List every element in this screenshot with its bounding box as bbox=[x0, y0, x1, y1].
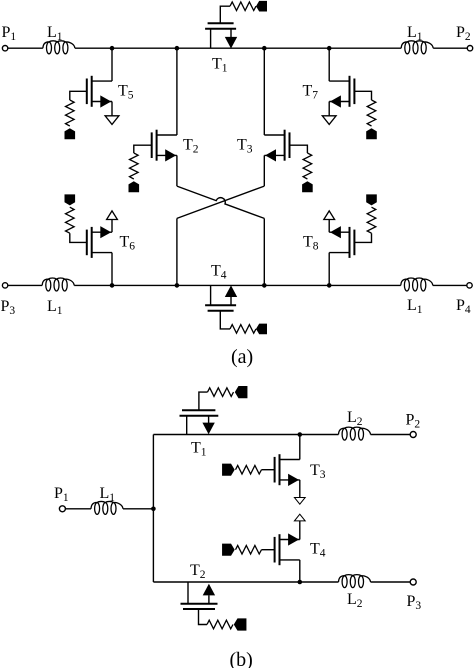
ground T7 bbox=[322, 116, 336, 125]
wire T4 gate lead bbox=[220, 311, 230, 329]
svg-text:T4: T4 bbox=[211, 263, 227, 282]
wire T2 source down bbox=[176, 155, 178, 186]
wire T7 gate lead bbox=[354, 91, 371, 100]
wire T2 gate lead part-b bbox=[199, 609, 208, 625]
svg-text:T1: T1 bbox=[212, 56, 228, 75]
wire T3 source down bbox=[263, 155, 265, 186]
bias terminal T1 part-b bbox=[235, 386, 248, 398]
transistor T1 bbox=[205, 23, 237, 48]
resistor T8 gate bias bbox=[367, 207, 376, 233]
resistor T2 gate bias bbox=[130, 153, 139, 179]
inductor L1 top-left bbox=[43, 41, 75, 54]
svg-text:(b): (b) bbox=[230, 649, 253, 668]
bias terminal T2 part-b bbox=[234, 618, 247, 630]
svg-text:P3: P3 bbox=[407, 593, 422, 612]
up terminal T6 bbox=[107, 211, 118, 220]
up terminal T4 part-b bbox=[294, 514, 305, 521]
transistor T1 part-b bbox=[180, 410, 219, 434]
inductor L1 bottom-left bbox=[42, 278, 74, 291]
port P3 bbox=[2, 283, 7, 288]
transistor T7 bbox=[329, 76, 354, 108]
svg-text:P1: P1 bbox=[2, 24, 17, 43]
wire cross-couple T3 source to left node bbox=[177, 186, 264, 218]
wire P1 to L1 bbox=[8, 47, 43, 49]
wire T4 source up part-b bbox=[299, 521, 301, 540]
wire left trunk part-b bbox=[152, 435, 154, 583]
junction bottom rail at T6 drain bbox=[110, 283, 115, 288]
svg-text:P2: P2 bbox=[456, 24, 471, 43]
bias terminal T3 part-b bbox=[222, 464, 235, 476]
wire T4 drain to bottom rail part-b bbox=[299, 560, 301, 582]
wire L1 to P2 bbox=[433, 47, 467, 49]
bias terminal T5 bbox=[65, 128, 76, 139]
bias terminal T4 part-b bbox=[222, 544, 235, 556]
wire T3 drain to top rail part-b bbox=[299, 435, 301, 460]
svg-text:T8: T8 bbox=[303, 234, 319, 253]
wire T3 gate lead bbox=[290, 145, 308, 153]
wire T2 drain to top rail bbox=[176, 48, 178, 135]
wire bottom rail bbox=[74, 284, 401, 286]
svg-text:L1: L1 bbox=[407, 24, 423, 43]
wire L2 to P2 part-b bbox=[371, 434, 411, 436]
transistor T6 bbox=[87, 226, 112, 258]
svg-text:L1: L1 bbox=[407, 297, 423, 316]
wire L2 to P3 part-b bbox=[371, 581, 411, 583]
bias terminal T7 bbox=[366, 128, 377, 139]
wire T5 gate lead bbox=[70, 91, 87, 100]
ground T3 part-b bbox=[294, 498, 305, 505]
svg-text:L1: L1 bbox=[100, 485, 116, 504]
resistor T1 gate bias bbox=[230, 2, 256, 11]
transistor T2 part-b bbox=[181, 582, 218, 609]
wire T6 source up bbox=[111, 220, 113, 233]
svg-text:(a): (a) bbox=[231, 346, 253, 368]
resistor T1 gate bias part-b bbox=[208, 388, 234, 397]
port P3 part-b bbox=[410, 579, 416, 585]
junction bottom rail part-b bbox=[298, 580, 303, 585]
wire bottom rail part-b bbox=[153, 581, 338, 583]
port P4 bbox=[467, 283, 472, 288]
svg-text:P2: P2 bbox=[406, 412, 421, 431]
inductor L2 top part-b bbox=[339, 427, 371, 440]
transistor T4 bbox=[205, 285, 237, 310]
wire T5 drain to top rail bbox=[111, 48, 113, 81]
wire T3 gate lead part-b bbox=[262, 469, 275, 471]
wire T1 gate lead part-b bbox=[199, 392, 208, 410]
wire left cross node down to bottom rail bbox=[176, 218, 178, 285]
wire T5 source down bbox=[111, 102, 113, 116]
wire P3 to L1 bbox=[8, 284, 42, 286]
wire T3 source down part-b bbox=[299, 480, 301, 498]
up terminal T8 bbox=[324, 211, 335, 220]
transistor T3 part-b bbox=[275, 454, 300, 486]
wire top rail bbox=[75, 47, 401, 49]
svg-text:T5: T5 bbox=[118, 83, 134, 102]
bias terminal T4 bbox=[256, 324, 267, 335]
junction top rail at T2 drain bbox=[175, 46, 180, 51]
inductor L1 part-b bbox=[91, 501, 123, 514]
svg-text:T6: T6 bbox=[120, 234, 136, 253]
port P2 bbox=[467, 46, 472, 51]
svg-text:T2: T2 bbox=[190, 562, 206, 581]
svg-text:T1: T1 bbox=[191, 440, 207, 459]
wire T6 gate lead bbox=[70, 233, 87, 242]
resistor T2 gate bias part-b bbox=[207, 620, 233, 629]
wire right cross node down to bottom rail bbox=[263, 218, 265, 285]
wire L1 to trunk part-b bbox=[123, 508, 153, 510]
svg-text:L2: L2 bbox=[347, 591, 363, 610]
wire T7 drain to top rail bbox=[328, 48, 330, 81]
junction top rail at T3 drain bbox=[262, 46, 267, 51]
port P1 part-b bbox=[59, 506, 65, 512]
junction bottom rail at T8 drain bbox=[327, 283, 332, 288]
inductor L1 top-right bbox=[401, 41, 433, 54]
resistor T5 gate bias bbox=[66, 100, 75, 126]
wire T8 source up bbox=[328, 220, 330, 233]
ground T5 bbox=[105, 116, 119, 125]
svg-text:P1: P1 bbox=[54, 485, 69, 504]
resistor T4 gate bias part-b bbox=[236, 545, 262, 554]
resistor T3 gate bias bbox=[303, 153, 312, 179]
resistor T4 gate bias bbox=[230, 325, 256, 334]
resistor T3 gate bias part-b bbox=[236, 465, 262, 474]
transistor T3 bbox=[264, 130, 289, 162]
svg-text:T4: T4 bbox=[310, 541, 326, 560]
junction top rail part-b bbox=[298, 432, 303, 437]
wire P1 to L1 part-b bbox=[65, 508, 91, 510]
svg-text:L2: L2 bbox=[347, 409, 363, 428]
junction trunk at P1 branch part-b bbox=[151, 507, 156, 512]
svg-text:P4: P4 bbox=[456, 297, 471, 316]
inductor L2 bottom part-b bbox=[339, 575, 371, 588]
wire T2 gate lead bbox=[134, 145, 152, 153]
bias terminal T2 bbox=[129, 181, 140, 192]
port P2 part-b bbox=[410, 432, 416, 438]
junction bottom rail right cross node bbox=[262, 283, 267, 288]
wire T8 drain to bottom rail bbox=[328, 253, 330, 286]
wire T4 gate lead part-b bbox=[262, 549, 275, 551]
wire T1 gate lead bbox=[220, 6, 230, 23]
svg-text:L1: L1 bbox=[47, 298, 63, 317]
svg-text:P3: P3 bbox=[1, 298, 16, 317]
transistor T2 bbox=[152, 130, 177, 162]
bias terminal T1 bbox=[256, 1, 267, 12]
wire T6 drain to bottom rail bbox=[111, 253, 113, 286]
transistor T4 part-b bbox=[275, 533, 300, 565]
junction top rail at T5 drain bbox=[110, 46, 115, 51]
transistor T8 bbox=[329, 226, 354, 258]
junction top rail at T7 drain bbox=[327, 46, 332, 51]
svg-text:L1: L1 bbox=[47, 24, 63, 43]
svg-text:T3: T3 bbox=[237, 137, 253, 156]
transistor T5 bbox=[87, 76, 112, 108]
bias terminal T6 bbox=[65, 194, 76, 205]
wire L1 to P4 bbox=[433, 284, 467, 286]
resistor T7 gate bias bbox=[367, 100, 376, 126]
svg-text:T3: T3 bbox=[310, 462, 326, 481]
inductor L1 bottom-right bbox=[401, 278, 433, 291]
bias terminal T8 bbox=[366, 194, 377, 205]
bias terminal T3 bbox=[302, 181, 313, 192]
resistor T6 gate bias bbox=[66, 207, 75, 233]
wire T8 gate lead bbox=[354, 233, 371, 242]
junction bottom rail left cross node bbox=[175, 283, 180, 288]
svg-text:T7: T7 bbox=[303, 83, 319, 102]
wire T3 drain to top rail bbox=[263, 48, 265, 135]
wire cross-couple T2 source to right node with hop bbox=[177, 186, 264, 218]
port P1 bbox=[2, 46, 7, 51]
wire top rail part-b bbox=[153, 434, 338, 436]
svg-text:T2: T2 bbox=[183, 137, 199, 156]
wire T7 source down bbox=[328, 102, 330, 116]
